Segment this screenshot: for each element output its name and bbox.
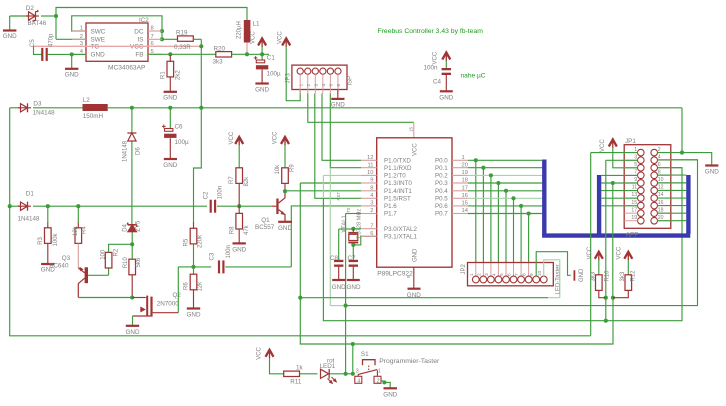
svg-text:DC: DC	[134, 28, 144, 35]
svg-text:BAT46: BAT46	[28, 20, 47, 27]
svg-text:P1.3/INT0: P1.3/INT0	[384, 180, 412, 187]
svg-text:18: 18	[658, 207, 664, 213]
svg-text:6: 6	[658, 162, 661, 168]
svg-text:9: 9	[634, 177, 637, 183]
svg-text:100: 100	[100, 249, 106, 260]
svg-text:12: 12	[367, 155, 373, 161]
svg-text:VCC: VCC	[256, 346, 262, 359]
svg-text:S1: S1	[361, 351, 369, 358]
svg-text:17: 17	[631, 207, 637, 213]
svg-text:150mH: 150mH	[83, 113, 104, 120]
svg-text:GND: GND	[579, 268, 585, 282]
svg-text:FB: FB	[135, 52, 143, 59]
svg-text:4: 4	[491, 273, 497, 276]
svg-text:P1.5/RST: P1.5/RST	[384, 196, 411, 203]
svg-text:GND: GND	[383, 391, 397, 398]
svg-text:14: 14	[462, 208, 469, 214]
svg-text:D3: D3	[33, 100, 42, 107]
svg-text:GND: GND	[347, 284, 361, 291]
svg-text:R1: R1	[161, 71, 167, 79]
svg-text:GND: GND	[163, 162, 177, 169]
svg-text:10: 10	[367, 170, 373, 176]
svg-text:IC2: IC2	[139, 17, 149, 24]
svg-text:8: 8	[151, 26, 154, 32]
svg-text:VCC: VCC	[616, 246, 622, 259]
svg-text:8: 8	[522, 273, 528, 276]
svg-text:P3.0/XTAL2: P3.0/XTAL2	[384, 226, 417, 233]
svg-text:GND: GND	[705, 169, 719, 176]
svg-text:GND: GND	[91, 52, 106, 59]
svg-text:P0.5: P0.5	[435, 196, 448, 203]
svg-text:4: 4	[358, 379, 361, 385]
svg-text:R10: R10	[605, 270, 611, 282]
svg-text:19: 19	[631, 215, 637, 221]
svg-text:5: 5	[406, 275, 411, 278]
svg-text:47k: 47k	[244, 224, 250, 235]
svg-text:1N4148: 1N4148	[18, 215, 41, 222]
svg-text:470p: 470p	[48, 33, 54, 47]
svg-text:GND: GND	[255, 87, 269, 94]
svg-text:100n: 100n	[218, 186, 224, 199]
svg-text:GND: GND	[163, 94, 177, 101]
svg-text:P0.2: P0.2	[435, 173, 448, 180]
svg-text:P1.1/RXD: P1.1/RXD	[384, 165, 412, 172]
svg-text:18: 18	[462, 178, 468, 184]
svg-text:D2: D2	[26, 5, 35, 12]
svg-text:VCC: VCC	[413, 143, 419, 156]
svg-text:4: 4	[321, 84, 327, 87]
svg-text:13: 13	[631, 192, 637, 198]
svg-text:P0.1: P0.1	[435, 165, 448, 172]
svg-text:GND: GND	[126, 329, 140, 336]
svg-text:VCC: VCC	[600, 139, 606, 152]
svg-text:R10: R10	[123, 257, 129, 269]
svg-text:10: 10	[658, 177, 664, 183]
svg-text:6: 6	[370, 231, 373, 237]
svg-text:R11: R11	[290, 379, 302, 386]
svg-text:P0.0: P0.0	[435, 158, 448, 165]
svg-text:82k: 82k	[244, 176, 250, 187]
svg-text:JP2: JP2	[461, 263, 467, 274]
svg-text:1: 1	[469, 273, 475, 276]
svg-text:3: 3	[314, 84, 320, 87]
svg-text:3k3: 3k3	[620, 271, 626, 281]
svg-text:VCC: VCC	[433, 51, 439, 64]
svg-text:1: 1	[80, 26, 83, 32]
svg-text:P0.7: P0.7	[435, 211, 448, 218]
svg-text:GND: GND	[65, 71, 79, 78]
svg-text:R3: R3	[38, 236, 44, 244]
svg-text:D1: D1	[26, 190, 35, 197]
svg-text:GND: GND	[278, 225, 292, 232]
svg-text:P1.7: P1.7	[384, 211, 397, 218]
svg-text:JP1: JP1	[625, 138, 636, 145]
svg-text:R7: R7	[229, 176, 235, 184]
svg-text:100µ: 100µ	[175, 139, 190, 146]
svg-text:R20: R20	[214, 45, 226, 52]
svg-text:1k: 1k	[296, 365, 304, 372]
svg-text:C7: C7	[348, 255, 357, 262]
svg-text:16: 16	[658, 200, 664, 206]
svg-text:R6: R6	[184, 282, 190, 290]
svg-text:R19: R19	[176, 30, 188, 37]
svg-text:VCC: VCC	[251, 31, 257, 44]
svg-text:1: 1	[634, 147, 637, 153]
svg-text:BC557: BC557	[255, 224, 275, 231]
svg-text:Q3: Q3	[62, 255, 71, 262]
svg-text:MC34063AP: MC34063AP	[108, 64, 146, 71]
svg-text:P3.1/XTAL1: P3.1/XTAL1	[384, 234, 417, 241]
svg-text:15: 15	[631, 200, 637, 206]
svg-text:VCC: VCC	[130, 44, 144, 51]
svg-text:9: 9	[370, 178, 373, 184]
svg-text:14: 14	[658, 192, 664, 198]
svg-text:220µH: 220µH	[237, 21, 243, 39]
svg-text:D6: D6	[135, 147, 141, 155]
svg-text:5: 5	[329, 84, 335, 87]
svg-text:R12: R12	[631, 270, 637, 282]
svg-text:L1: L1	[253, 21, 261, 28]
svg-text:P1.2/T0: P1.2/T0	[384, 173, 406, 180]
svg-text:R5: R5	[183, 238, 189, 246]
svg-text:C6: C6	[175, 124, 184, 131]
svg-text:LED1: LED1	[320, 363, 336, 370]
svg-text:SWC: SWC	[91, 28, 106, 35]
svg-text:3: 3	[356, 368, 359, 374]
svg-text:2: 2	[377, 379, 380, 385]
svg-text:BC640: BC640	[49, 262, 69, 269]
svg-text:JP3: JP3	[286, 72, 292, 83]
svg-text:C5: C5	[30, 39, 36, 47]
svg-text:11: 11	[367, 162, 373, 168]
svg-text:Programmier-Taster: Programmier-Taster	[379, 358, 440, 365]
svg-text:P1.4/INT1: P1.4/INT1	[384, 188, 412, 195]
svg-text:P1.6: P1.6	[384, 203, 397, 210]
svg-text:12k: 12k	[73, 225, 79, 236]
svg-text:1N4148: 1N4148	[122, 140, 128, 162]
svg-text:Q2: Q2	[173, 292, 182, 299]
svg-text:8: 8	[370, 186, 373, 192]
svg-text:APP: APP	[626, 231, 639, 238]
svg-text:7: 7	[370, 223, 373, 229]
svg-text:P1.0/TXD: P1.0/TXD	[384, 158, 411, 165]
svg-text:C2: C2	[204, 191, 210, 199]
svg-text:T0: T0	[346, 207, 351, 213]
svg-text:XTAL1: XTAL1	[342, 214, 348, 233]
svg-text:C1: C1	[267, 55, 276, 62]
svg-text:7: 7	[634, 170, 637, 176]
svg-text:R2: R2	[113, 248, 119, 256]
svg-text:SWE: SWE	[91, 37, 106, 44]
svg-text:100n: 100n	[423, 64, 438, 71]
svg-text:VCC: VCC	[229, 131, 235, 144]
svg-text:nahe µC: nahe µC	[461, 73, 486, 80]
svg-text:RST: RST	[336, 192, 341, 201]
svg-text:1: 1	[298, 84, 304, 87]
svg-text:0,33R: 0,33R	[174, 44, 191, 51]
svg-text:2: 2	[370, 208, 373, 214]
svg-text:16: 16	[462, 193, 468, 199]
svg-text:Q1: Q1	[261, 217, 270, 224]
svg-text:1N4148: 1N4148	[33, 110, 56, 117]
svg-text:7: 7	[514, 273, 520, 276]
svg-text:3k3: 3k3	[590, 271, 596, 281]
svg-text:R4: R4	[82, 226, 88, 234]
svg-text:IS: IS	[137, 37, 143, 44]
svg-text:3: 3	[634, 154, 637, 160]
svg-text:P0.4: P0.4	[435, 188, 448, 195]
svg-text:2: 2	[476, 273, 482, 276]
svg-text:6: 6	[507, 273, 513, 276]
svg-text:D4: D4	[123, 223, 129, 231]
svg-text:2: 2	[306, 84, 312, 87]
svg-text:2: 2	[658, 147, 661, 153]
svg-text:12: 12	[658, 185, 664, 191]
svg-text:C3: C3	[210, 252, 216, 260]
svg-text:20: 20	[658, 215, 664, 221]
svg-text:100n: 100n	[226, 245, 232, 258]
svg-text:100k: 100k	[53, 232, 59, 246]
svg-text:10k: 10k	[275, 164, 281, 175]
svg-text:3: 3	[370, 201, 373, 207]
svg-text:R9: R9	[290, 164, 296, 172]
svg-text:GND: GND	[413, 248, 419, 262]
svg-text:ZY5: ZY5	[136, 220, 142, 232]
svg-text:220k: 220k	[198, 234, 204, 248]
svg-text:3: 3	[484, 273, 490, 276]
svg-text:ISP: ISP	[348, 76, 354, 86]
svg-text:C8: C8	[330, 255, 339, 262]
svg-text:GND: GND	[187, 312, 201, 319]
svg-text:2: 2	[80, 34, 83, 40]
svg-text:P0.6: P0.6	[435, 203, 448, 210]
svg-text:L2: L2	[83, 97, 91, 104]
svg-text:C4: C4	[433, 79, 442, 86]
svg-text:11: 11	[632, 185, 637, 191]
svg-text:VCC: VCC	[278, 31, 284, 44]
svg-text:15: 15	[462, 201, 468, 207]
svg-text:15: 15	[409, 126, 414, 132]
svg-text:9: 9	[529, 273, 535, 276]
svg-text:TC: TC	[91, 44, 100, 51]
svg-text:2N7000: 2N7000	[157, 300, 180, 307]
svg-text:20: 20	[462, 162, 468, 168]
svg-text:GND: GND	[232, 246, 246, 253]
svg-text:6: 6	[336, 84, 342, 87]
svg-text:5: 5	[499, 273, 505, 276]
svg-text:GND: GND	[332, 284, 346, 291]
svg-text:2k2: 2k2	[176, 70, 182, 80]
svg-text:P0.3: P0.3	[435, 180, 448, 187]
svg-text:LED-Taster: LED-Taster	[556, 264, 562, 294]
svg-text:10: 10	[537, 270, 543, 276]
svg-text:VCC: VCC	[587, 246, 593, 259]
svg-text:Freebus Controller 3.43 by fb-: Freebus Controller 3.43 by fb-team	[378, 28, 484, 35]
svg-text:7: 7	[151, 34, 154, 40]
svg-text:GND: GND	[3, 33, 17, 40]
svg-text:19: 19	[462, 170, 468, 176]
svg-text:VCC: VCC	[273, 131, 279, 144]
svg-text:100µ: 100µ	[267, 71, 282, 78]
svg-text:1: 1	[462, 155, 465, 161]
svg-text:17: 17	[462, 186, 468, 192]
svg-text:1: 1	[378, 368, 381, 374]
svg-text:5: 5	[634, 162, 637, 168]
svg-text:3k3: 3k3	[213, 59, 224, 66]
svg-text:5k6: 5k6	[136, 257, 142, 267]
svg-text:R8: R8	[230, 226, 236, 234]
svg-text:12k: 12k	[198, 281, 204, 292]
svg-text:GND: GND	[439, 94, 453, 101]
